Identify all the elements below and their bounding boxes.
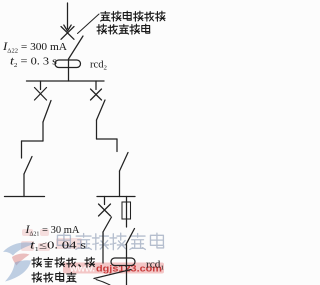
wire right branch drop	[95, 81, 97, 90]
wire left vertical	[42, 122, 44, 141]
watermark logo blue top swoosh	[3, 242, 35, 255]
switch S1 blade	[126, 229, 135, 245]
fuse FU	[122, 202, 131, 219]
wire to left load	[23, 174, 25, 197]
rcd1 toroid	[111, 258, 135, 266]
breaker QF-L blade	[43, 101, 51, 123]
caption CJK line2: neng de duan lu qi	[97, 24, 150, 34]
wire sub-left down	[102, 232, 104, 263]
breaker QF-L contact cross	[35, 88, 47, 101]
svg-text:t1≤0. 04 s: t1≤0. 04 s	[30, 238, 86, 254]
watermark logo blue bottom crescent	[5, 260, 31, 281]
leader line to caption	[78, 14, 100, 34]
wire right vertical	[96, 120, 98, 139]
breaker QF1 contact cross	[99, 204, 111, 216]
caption CJK bottom line1: jie shou wo shi, yi	[32, 257, 95, 267]
wire right down	[116, 139, 118, 152]
wire sub-left drop	[104, 197, 106, 205]
wire left jog	[22, 140, 44, 142]
wire sub-right drop	[126, 197, 128, 203]
supply feeder arrow	[64, 3, 71, 31]
wire outgoing bend	[96, 280, 110, 285]
wire to sub busbar	[119, 171, 121, 197]
wire through rcd1 to bottom	[126, 245, 128, 285]
switch S-L blade	[24, 157, 32, 175]
caption CJK bottom line2: dong shi she bei	[32, 272, 76, 282]
watermark red url band	[63, 263, 164, 274]
watermark faint pink blobs	[21, 229, 82, 251]
rcd2 toroid	[55, 60, 81, 68]
switch S-R blade	[120, 153, 129, 172]
sub busbar	[97, 196, 135, 198]
wire right jog	[97, 138, 118, 140]
breaker QF-R contact cross	[91, 89, 102, 100]
breaker QF2 blade	[69, 36, 84, 59]
svg-text:t2 = 0. 3 s: t2 = 0. 3 s	[10, 54, 57, 70]
wire outgoing diagonal	[94, 270, 131, 279]
wire through fuse	[126, 202, 128, 227]
wire left down	[21, 141, 23, 158]
breaker QF1 blade	[103, 217, 112, 232]
busbar main	[27, 80, 105, 82]
left load terminal bar	[5, 196, 45, 198]
wire left branch drop	[40, 81, 42, 90]
breaker QF2 contact cross	[61, 27, 74, 40]
caption CJK line1: dai lou dian bao hu gong	[101, 11, 165, 21]
watermark site-name CJK text (gray-blue pseudo glyphs)	[57, 233, 163, 250]
watermark logo red accent	[12, 253, 30, 265]
wire main drop through rcd2	[68, 59, 70, 81]
breaker QF-R blade	[97, 100, 106, 120]
